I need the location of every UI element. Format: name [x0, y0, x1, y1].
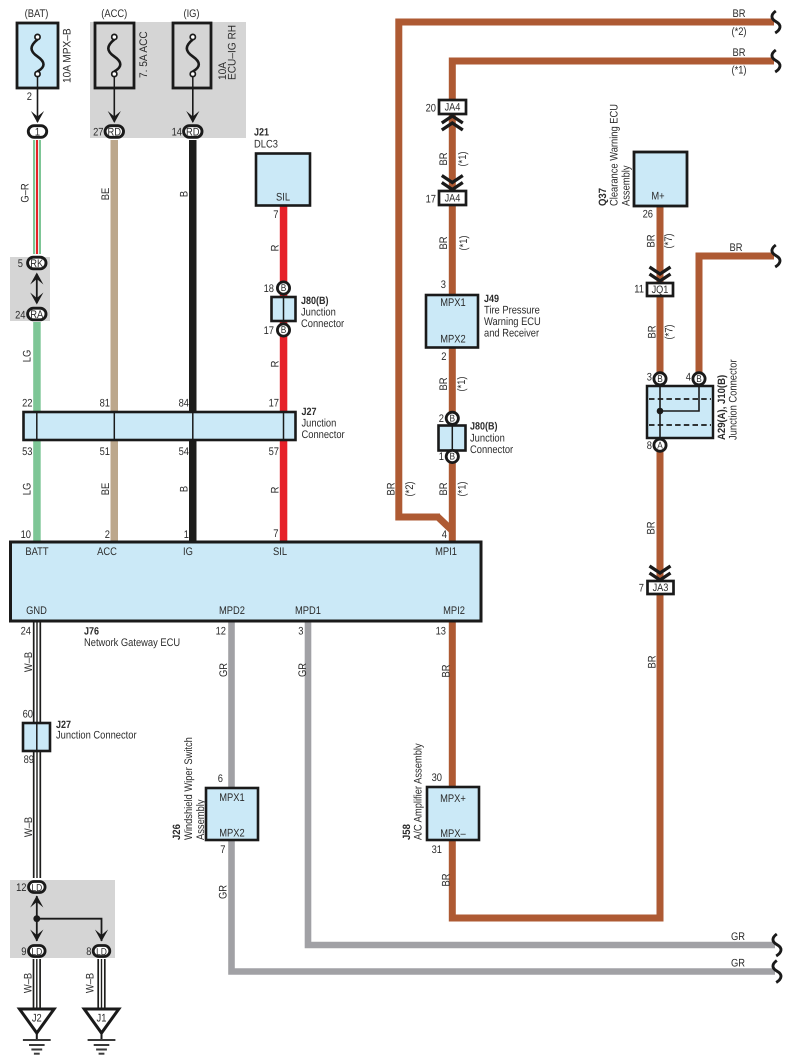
svg-text:11: 11	[634, 284, 644, 296]
svg-text:8: 8	[86, 946, 91, 958]
svg-text:B: B	[178, 486, 190, 492]
svg-text:(*1): (*1)	[456, 481, 468, 496]
svg-text:W–B: W–B	[23, 652, 35, 672]
svg-text:MPX1: MPX1	[440, 297, 465, 309]
svg-text:12: 12	[16, 882, 26, 894]
svg-text:22: 22	[22, 398, 32, 410]
svg-text:LG: LG	[21, 483, 33, 495]
svg-text:Junction Connector: Junction Connector	[56, 730, 137, 742]
svg-text:BR: BR	[438, 236, 450, 249]
svg-text:BR: BR	[438, 377, 450, 390]
svg-text:24: 24	[15, 310, 25, 322]
svg-text:MPX1: MPX1	[219, 792, 244, 804]
svg-text:14: 14	[172, 127, 182, 139]
svg-text:1: 1	[184, 529, 189, 541]
svg-text:G–R: G–R	[19, 183, 31, 202]
svg-text:51: 51	[100, 446, 110, 458]
svg-text:BR: BR	[438, 152, 450, 165]
svg-text:(*7): (*7)	[663, 233, 675, 248]
svg-text:7: 7	[639, 582, 644, 594]
svg-text:B: B	[657, 374, 663, 385]
svg-text:4: 4	[442, 529, 447, 541]
svg-text:RK: RK	[30, 258, 44, 270]
svg-text:JA4: JA4	[445, 102, 461, 114]
svg-text:MPD2: MPD2	[219, 605, 245, 617]
svg-text:54: 54	[179, 446, 189, 458]
svg-text:BR: BR	[733, 8, 746, 20]
svg-text:MPD1: MPD1	[295, 605, 321, 617]
svg-text:7. 5A ACC: 7. 5A ACC	[138, 31, 150, 78]
svg-text:BR: BR	[733, 47, 746, 59]
svg-text:GR: GR	[297, 663, 309, 677]
svg-text:MPX2: MPX2	[440, 334, 465, 346]
svg-text:27: 27	[93, 127, 103, 139]
svg-text:(*1): (*1)	[458, 235, 470, 250]
svg-text:2: 2	[105, 529, 110, 541]
svg-text:A29(A), J10(B): A29(A), J10(B)	[716, 375, 728, 440]
svg-text:(IG): (IG)	[183, 8, 199, 20]
svg-text:RD: RD	[186, 126, 200, 138]
svg-text:B: B	[178, 191, 190, 197]
svg-text:Q37: Q37	[597, 188, 609, 206]
svg-text:Connector: Connector	[301, 318, 344, 330]
svg-text:R: R	[269, 361, 281, 368]
svg-text:10A MPX–B: 10A MPX–B	[61, 28, 73, 83]
svg-text:JA3: JA3	[653, 582, 669, 594]
svg-text:Warning ECU: Warning ECU	[484, 316, 541, 328]
svg-text:7: 7	[273, 528, 278, 540]
svg-text:(BAT): (BAT)	[25, 8, 49, 20]
svg-text:20: 20	[426, 102, 436, 114]
svg-text:M+: M+	[651, 191, 664, 203]
svg-text:BR: BR	[438, 482, 450, 495]
svg-text:J80(B): J80(B)	[470, 421, 498, 433]
svg-text:SIL: SIL	[273, 546, 287, 558]
svg-text:Assembly: Assembly	[195, 799, 207, 840]
svg-text:7: 7	[273, 209, 278, 221]
svg-text:BR: BR	[646, 325, 658, 338]
svg-text:Connector: Connector	[470, 444, 513, 456]
svg-text:24: 24	[21, 626, 31, 638]
svg-text:84: 84	[179, 398, 189, 410]
svg-text:LG: LG	[21, 350, 33, 362]
svg-text:13: 13	[436, 626, 446, 638]
svg-text:ACC: ACC	[97, 546, 117, 558]
svg-text:81: 81	[100, 398, 110, 410]
svg-text:89: 89	[24, 754, 34, 766]
svg-text:2: 2	[441, 351, 446, 363]
svg-text:B: B	[281, 283, 287, 294]
svg-text:(*7): (*7)	[663, 324, 675, 339]
svg-text:J1: J1	[97, 1013, 107, 1025]
svg-text:W–B: W–B	[84, 973, 96, 993]
svg-text:IG: IG	[183, 546, 193, 558]
svg-text:MPI1: MPI1	[435, 546, 457, 558]
svg-text:R: R	[269, 487, 281, 494]
svg-text:BR: BR	[385, 482, 397, 495]
svg-text:B: B	[281, 325, 287, 336]
svg-text:MPX–: MPX–	[440, 828, 466, 840]
svg-text:Junction: Junction	[301, 307, 336, 319]
svg-text:MPX2: MPX2	[219, 828, 244, 840]
svg-text:7: 7	[220, 844, 225, 856]
svg-text:BATT: BATT	[25, 546, 48, 558]
svg-text:Junction: Junction	[470, 433, 505, 445]
svg-text:LD: LD	[31, 947, 42, 958]
svg-text:LD: LD	[96, 947, 107, 958]
svg-text:and Receiver: and Receiver	[484, 328, 539, 340]
svg-text:BR: BR	[645, 521, 657, 534]
svg-text:BR: BR	[440, 664, 452, 677]
svg-text:MPX+: MPX+	[440, 793, 466, 805]
svg-text:31: 31	[432, 844, 442, 856]
svg-text:17: 17	[269, 398, 279, 410]
svg-text:J2: J2	[32, 1013, 42, 1025]
svg-text:GR: GR	[218, 663, 230, 677]
svg-text:RA: RA	[30, 309, 44, 321]
svg-text:2: 2	[439, 413, 444, 425]
svg-text:17: 17	[264, 325, 274, 337]
svg-text:BE: BE	[100, 188, 112, 200]
svg-text:J80(B): J80(B)	[301, 295, 329, 307]
svg-text:JQ1: JQ1	[652, 284, 669, 296]
svg-text:J58: J58	[401, 824, 413, 840]
svg-text:W–B: W–B	[22, 973, 34, 993]
svg-text:(ACC): (ACC)	[101, 8, 127, 20]
svg-text:Network Gateway ECU: Network Gateway ECU	[84, 637, 180, 649]
svg-text:BR: BR	[645, 234, 657, 247]
svg-text:A/C Amplifier Assembly: A/C Amplifier Assembly	[412, 743, 424, 840]
svg-text:Windshield Wiper Switch: Windshield Wiper Switch	[183, 737, 195, 840]
svg-text:Junction Connector: Junction Connector	[727, 359, 739, 440]
svg-text:J49: J49	[484, 293, 499, 305]
svg-text:W–B: W–B	[23, 817, 35, 837]
svg-text:B: B	[450, 414, 456, 425]
svg-text:BR: BR	[730, 242, 743, 254]
svg-text:3: 3	[298, 626, 303, 638]
svg-text:Assembly: Assembly	[620, 165, 632, 206]
svg-text:26: 26	[643, 209, 653, 221]
svg-text:(*1): (*1)	[457, 151, 469, 166]
svg-text:4: 4	[686, 372, 691, 384]
svg-text:DLC3: DLC3	[254, 139, 278, 151]
svg-text:(*2): (*2)	[404, 481, 416, 496]
svg-text:B: B	[696, 374, 702, 385]
svg-text:J26: J26	[171, 824, 183, 840]
svg-text:RD: RD	[108, 126, 122, 138]
svg-text:2: 2	[27, 91, 32, 103]
svg-text:J21: J21	[254, 127, 269, 139]
svg-text:12: 12	[216, 626, 226, 638]
svg-text:GR: GR	[217, 885, 229, 899]
svg-text:17: 17	[426, 193, 436, 205]
svg-text:SIL: SIL	[276, 192, 290, 204]
svg-text:J27: J27	[302, 406, 317, 418]
svg-text:R: R	[269, 245, 281, 252]
svg-text:(*1): (*1)	[456, 376, 468, 391]
svg-text:18: 18	[264, 283, 274, 295]
svg-text:J76: J76	[84, 626, 99, 638]
svg-text:3: 3	[647, 372, 652, 384]
svg-text:60: 60	[23, 709, 33, 721]
svg-text:GND: GND	[26, 605, 47, 617]
svg-text:BE: BE	[100, 483, 112, 495]
svg-text:(*1): (*1)	[731, 65, 746, 77]
svg-text:Clearance Warning ECU: Clearance Warning ECU	[608, 104, 620, 206]
svg-text:ECU–IG RH: ECU–IG RH	[226, 25, 238, 80]
svg-text:10: 10	[21, 529, 31, 541]
svg-text:8: 8	[647, 440, 652, 452]
svg-text:5: 5	[18, 258, 23, 270]
svg-text:53: 53	[22, 446, 32, 458]
svg-text:Tire Pressure: Tire Pressure	[484, 305, 540, 317]
svg-text:3: 3	[441, 279, 446, 291]
svg-text:BR: BR	[646, 655, 658, 668]
svg-text:B: B	[450, 452, 456, 463]
svg-text:57: 57	[269, 446, 279, 458]
svg-text:6: 6	[218, 773, 223, 785]
svg-text:9: 9	[21, 946, 26, 958]
svg-text:LD: LD	[31, 883, 42, 894]
svg-text:Connector: Connector	[302, 429, 345, 441]
svg-text:MPI2: MPI2	[443, 605, 465, 617]
svg-text:GR: GR	[731, 931, 745, 943]
svg-text:1: 1	[35, 126, 40, 138]
svg-text:30: 30	[432, 772, 442, 784]
svg-text:JA4: JA4	[445, 193, 461, 205]
svg-text:1: 1	[439, 451, 444, 463]
svg-text:Junction: Junction	[302, 418, 337, 430]
svg-text:A: A	[657, 440, 663, 451]
svg-text:BR: BR	[440, 873, 452, 886]
svg-text:GR: GR	[731, 958, 745, 970]
svg-text:(*2): (*2)	[731, 26, 746, 38]
